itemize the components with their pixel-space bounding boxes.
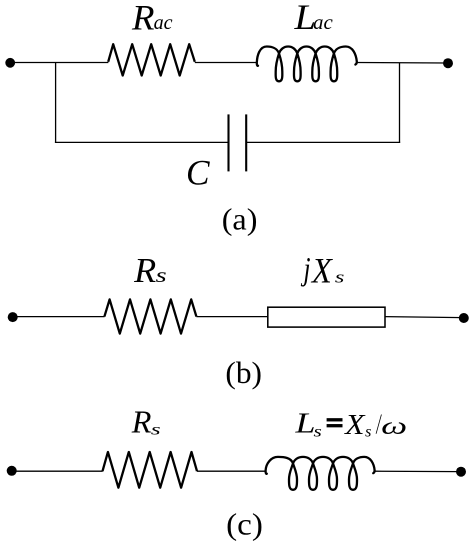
wire: from jXs box to right terminal	[385, 317, 463, 318]
svg-text:s: s	[365, 423, 371, 440]
wire: left lead, circuit (b)	[13, 316, 105, 318]
wire: between Rs and Ls	[197, 470, 266, 472]
node: left terminal of circuit (c)	[7, 466, 17, 476]
svg-text:ac: ac	[313, 10, 333, 34]
node: right terminal of circuit (c)	[456, 467, 466, 477]
node: left terminal of circuit (a)	[5, 58, 15, 68]
resistor Rs zigzag, circuit (b)	[104, 299, 196, 333]
svg-text:X: X	[310, 250, 334, 290]
wire: from Lac to right terminal	[357, 62, 447, 65]
svg-text:s: s	[151, 421, 161, 438]
inductor Lac coil, circuit (a)	[257, 47, 357, 82]
svg-text:R: R	[131, 0, 155, 38]
svg-text:C: C	[186, 153, 211, 193]
wire: top-left horizontal, circuit (a)	[10, 62, 108, 64]
node: right terminal of circuit (a)	[443, 58, 453, 68]
wire: between Rac and Lac	[195, 62, 257, 64]
svg-text:(a): (a)	[222, 201, 258, 236]
resistor Rs zigzag, circuit (c)	[103, 452, 198, 488]
capacitor C left plate	[227, 114, 229, 171]
wire: right vertical branch down to capacitor loop, circuit (a)	[399, 63, 401, 143]
svg-text:L: L	[294, 408, 315, 440]
impedance box jXs	[268, 307, 385, 327]
wire: between Rs and jXs box	[196, 316, 267, 318]
wire: left lead, circuit (c)	[12, 470, 103, 472]
inductor Ls coil, circuit (c)	[266, 457, 375, 490]
svg-text:s: s	[335, 267, 345, 286]
capacitor C right plate	[245, 114, 247, 171]
wire: bottom branch right of capacitor C	[246, 141, 400, 143]
svg-text:ω: ω	[381, 413, 407, 440]
svg-text:R: R	[133, 251, 156, 290]
svg-text:ac: ac	[154, 10, 174, 34]
label equals sign of Ls = Xs/omega	[327, 418, 343, 421]
wire: bottom branch left of capacitor C	[55, 141, 229, 143]
svg-text:(c): (c)	[226, 507, 263, 542]
node: right terminal of circuit (b)	[459, 313, 469, 323]
svg-text:s: s	[314, 422, 322, 440]
wire: left vertical branch down to capacitor loop, circuit (a)	[55, 63, 57, 143]
node: left terminal of circuit (b)	[8, 312, 18, 322]
svg-text:R: R	[131, 405, 152, 440]
svg-text:j: j	[300, 251, 310, 287]
svg-text:X: X	[344, 409, 366, 441]
wire: from Ls to right terminal	[375, 470, 460, 472]
svg-text:s: s	[156, 263, 167, 287]
svg-text:(b): (b)	[225, 355, 262, 390]
resistor Rac zigzag, circuit (a)	[108, 44, 195, 75]
